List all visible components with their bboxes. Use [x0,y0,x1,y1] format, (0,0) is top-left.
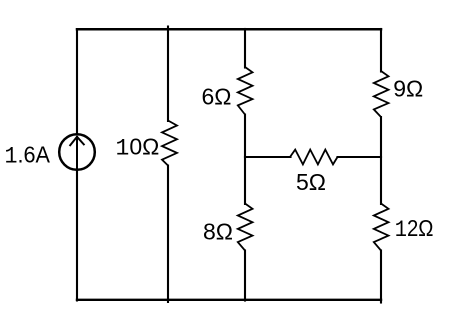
wire middle left (node B to 5ohm) [245,156,291,158]
wire 10ohm branch upper [167,27,169,122]
svg-text:8Ω: 8Ω [203,219,233,245]
wire 6ohm branch upper [244,29,246,68]
wire top (node A rail) [77,28,381,31]
resistor R 9ohm zigzag [374,71,389,117]
current source I1 1.6A [59,134,95,170]
svg-text:1.6A: 1.6A [5,142,51,170]
wire 8ohm branch lower [244,251,246,301]
resistor R 8ohm zigzag [238,204,253,251]
wire right lower (12ohm to bottom rail) [380,251,382,303]
svg-text:10Ω: 10Ω [116,134,160,162]
svg-text:6Ω: 6Ω [202,84,232,110]
svg-text:9Ω: 9Ω [393,76,423,102]
resistor R 10ohm zigzag [162,121,177,166]
wire 10ohm branch lower [167,166,169,303]
wire right middle (9ohm to 12ohm through node C) [380,117,382,204]
wire middle branch (6ohm to 8ohm through node B) [244,115,246,205]
svg-text:12Ω: 12Ω [395,215,434,243]
wire left lower (source to bottom rail) [76,171,78,301]
wire right upper (top rail to 9ohm) [380,29,382,72]
wire middle right (5ohm to node C) [338,156,382,158]
resistor R 5ohm zigzag [290,150,338,165]
wire bottom (ground rail) [77,299,381,301]
svg-text:5Ω: 5Ω [296,169,326,195]
resistor R 12ohm zigzag [374,204,389,251]
resistor R 6ohm zigzag [238,67,253,115]
wire left upper (source to top rail) [76,29,78,134]
